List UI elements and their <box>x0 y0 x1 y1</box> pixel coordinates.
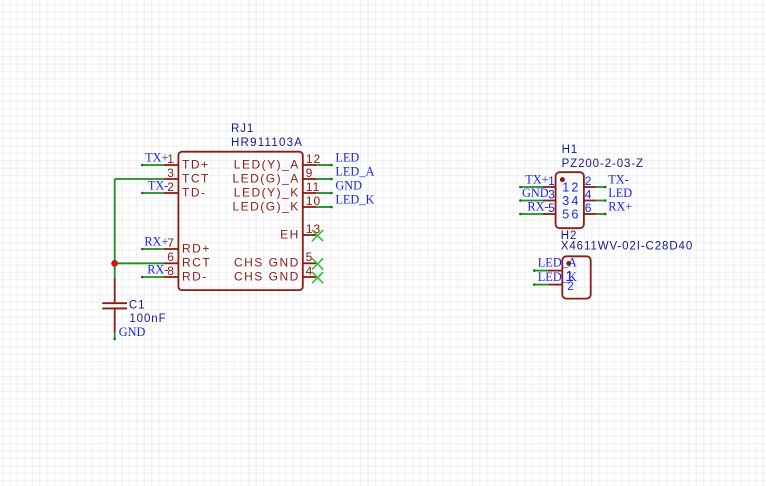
RJ1 pin 10 LED(G)_K <box>232 194 321 214</box>
RJ1 pin 11 LED(Y)_K <box>234 180 320 200</box>
wire RX- to RJ1 pin 8 <box>141 276 164 279</box>
RJ1 pin 9 LED(G)_A <box>232 166 316 186</box>
RJ1 pin 2 TD- <box>164 180 207 200</box>
connector H2 body <box>562 256 590 298</box>
svg-text:RX+: RX+ <box>608 200 632 214</box>
svg-text:100nF: 100nF <box>129 313 166 325</box>
svg-text:9: 9 <box>306 166 313 180</box>
svg-text:3: 3 <box>548 187 555 201</box>
svg-text:RX+: RX+ <box>144 235 168 249</box>
RJ1 pin 6 RCT <box>164 250 211 270</box>
wire TX+ to RJ1 pin 1 <box>141 164 164 167</box>
svg-text:LED_A: LED_A <box>538 256 577 270</box>
svg-text:6: 6 <box>585 201 592 215</box>
wire LED from H1 pin 4 <box>597 199 607 202</box>
capacitor C1 <box>102 278 127 333</box>
svg-text:RX-: RX- <box>147 263 168 277</box>
H1 pin 1 marker dot <box>560 177 565 182</box>
H2 pin 1 <box>548 268 574 285</box>
RJ1 pin 8 RD- <box>164 264 208 284</box>
svg-text:GND: GND <box>335 179 362 193</box>
svg-text:GND: GND <box>522 186 549 200</box>
svg-text:LED(Y)_A: LED(Y)_A <box>234 158 300 172</box>
H1 pin 2 <box>571 174 596 195</box>
svg-text:2: 2 <box>585 174 592 188</box>
wire RJ1 pin 3 horizontal <box>115 178 164 180</box>
wire stub RJ1 pin 11 to GND <box>317 192 333 195</box>
svg-text:6: 6 <box>571 207 578 221</box>
connector RJ1 body <box>178 152 302 290</box>
svg-text:LED(G)_K: LED(G)_K <box>232 200 299 214</box>
svg-text:4: 4 <box>306 264 313 278</box>
svg-text:GND: GND <box>119 325 146 339</box>
svg-text:HR911103A: HR911103A <box>231 137 303 149</box>
H1 pin 4 <box>571 187 596 208</box>
wire TX- from H1 pin 2 <box>597 186 607 189</box>
junction at RCT node <box>111 260 118 267</box>
svg-text:TX+: TX+ <box>145 151 168 165</box>
svg-text:RJ1: RJ1 <box>231 123 254 135</box>
RJ1 pin 4 CHS GND <box>234 264 317 284</box>
svg-text:C1: C1 <box>129 299 146 311</box>
wire RX+ to RJ1 pin 7 <box>141 248 164 251</box>
wire stub RJ1 pin 9 to LED_A <box>317 178 333 181</box>
RJ1 pin 13 EH <box>280 222 321 242</box>
wire LED_K to H2 pin 2 <box>533 283 548 286</box>
wire RX+ from H1 pin 6 <box>597 213 607 216</box>
wire TX- to RJ1 pin 2 <box>141 192 164 195</box>
svg-text:X4611WV-02I-C28D40: X4611WV-02I-C28D40 <box>561 240 693 252</box>
svg-text:LED(G)_A: LED(G)_A <box>232 172 299 186</box>
svg-text:LED_K: LED_K <box>538 270 577 284</box>
RJ1 pin 1 TD+ <box>164 152 210 172</box>
svg-text:12: 12 <box>306 152 321 166</box>
svg-text:TCT: TCT <box>182 172 210 186</box>
svg-text:11: 11 <box>306 180 320 194</box>
svg-text:RD-: RD- <box>182 270 208 284</box>
wire C1 bottom to GND <box>113 333 116 341</box>
RJ1 pin 7 RD+ <box>164 236 211 256</box>
svg-text:RX-: RX- <box>527 200 548 214</box>
no-connect flag on RJ1 pin 4 <box>312 272 323 283</box>
no-connect flag on RJ1 pin 5 <box>312 258 323 269</box>
svg-text:LED: LED <box>335 151 359 165</box>
svg-text:TX-: TX- <box>148 179 169 193</box>
svg-text:TD-: TD- <box>182 186 207 200</box>
svg-text:LED: LED <box>608 186 632 200</box>
svg-text:RCT: RCT <box>182 256 211 270</box>
svg-text:LED_A: LED_A <box>335 165 374 179</box>
RJ1 pin 12 LED(Y)_A <box>234 152 321 172</box>
svg-text:1: 1 <box>562 180 569 194</box>
svg-text:RD+: RD+ <box>182 242 211 256</box>
svg-text:4: 4 <box>571 194 578 208</box>
svg-text:EH: EH <box>280 228 300 242</box>
H2 pin 2 <box>548 281 574 293</box>
wire TX+ to H1 pin 1 <box>519 186 543 189</box>
svg-text:5: 5 <box>548 201 555 215</box>
svg-text:LED(Y)_K: LED(Y)_K <box>234 186 300 200</box>
svg-text:10: 10 <box>306 194 321 208</box>
svg-text:1: 1 <box>548 174 555 188</box>
svg-text:CHS GND: CHS GND <box>234 256 300 270</box>
svg-text:2: 2 <box>571 180 578 194</box>
H1 pin 1 <box>543 174 569 195</box>
wire LED_A to H2 pin 1 <box>533 269 548 272</box>
H1 pin 3 <box>543 187 569 208</box>
H1 pin 5 <box>543 201 569 222</box>
svg-text:CHS GND: CHS GND <box>234 270 300 284</box>
wire stub RJ1 pin 10 to LED_K <box>317 206 333 209</box>
svg-text:PZ200-2-03-Z: PZ200-2-03-Z <box>562 158 644 170</box>
svg-text:4: 4 <box>585 187 592 201</box>
svg-text:TX-: TX- <box>608 173 629 187</box>
RJ1 pin 5 CHS GND <box>234 250 317 270</box>
svg-text:TX+: TX+ <box>525 173 548 187</box>
wire vertical from pin 3 elbow to capacitor C1 <box>114 179 116 278</box>
H1 pin 6 <box>571 201 596 222</box>
no-connect flag on RJ1 pin 13 <box>312 230 323 241</box>
svg-text:5: 5 <box>306 250 313 264</box>
svg-text:5: 5 <box>562 207 569 221</box>
svg-text:3: 3 <box>562 194 569 208</box>
wire stub RJ1 pin 12 to LED <box>317 164 333 167</box>
svg-text:H1: H1 <box>562 144 579 156</box>
wire GND to H1 pin 3 <box>519 199 543 202</box>
svg-text:LED_K: LED_K <box>335 193 374 207</box>
svg-text:TD+: TD+ <box>182 158 210 172</box>
wire RX- to H1 pin 5 <box>519 213 543 216</box>
connector H1 body <box>556 172 584 228</box>
wire RJ1 pin 6 RCT to vertical net <box>115 262 164 264</box>
RJ1 pin 3 TCT <box>164 166 210 186</box>
H2 pin 1 marker dot <box>566 261 571 266</box>
